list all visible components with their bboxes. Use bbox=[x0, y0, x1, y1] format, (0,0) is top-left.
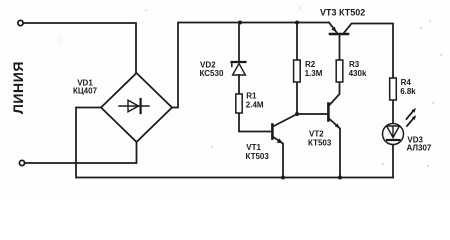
svg-text:КТ503: КТ503 bbox=[246, 152, 270, 161]
svg-text:VT1: VT1 bbox=[246, 143, 261, 152]
svg-text:VT3 КТ502: VT3 КТ502 bbox=[320, 8, 365, 18]
svg-text:2.4M: 2.4M bbox=[246, 101, 264, 110]
svg-text:R4: R4 bbox=[401, 78, 412, 87]
svg-text:VT2: VT2 bbox=[309, 130, 324, 139]
svg-text:ЛИНИЯ: ЛИНИЯ bbox=[10, 61, 26, 114]
svg-text:6.8k: 6.8k bbox=[400, 87, 416, 96]
svg-text:КТ503: КТ503 bbox=[308, 139, 332, 148]
svg-text:АЛ307: АЛ307 bbox=[407, 143, 432, 152]
svg-text:КЦ407: КЦ407 bbox=[73, 87, 98, 96]
svg-text:430k: 430k bbox=[349, 69, 367, 78]
svg-text:R3: R3 bbox=[349, 60, 360, 69]
svg-text:R2: R2 bbox=[305, 60, 316, 69]
svg-text:КС530: КС530 bbox=[200, 69, 224, 78]
svg-text:1.3M: 1.3M bbox=[305, 69, 323, 78]
svg-text:R1: R1 bbox=[246, 92, 257, 101]
